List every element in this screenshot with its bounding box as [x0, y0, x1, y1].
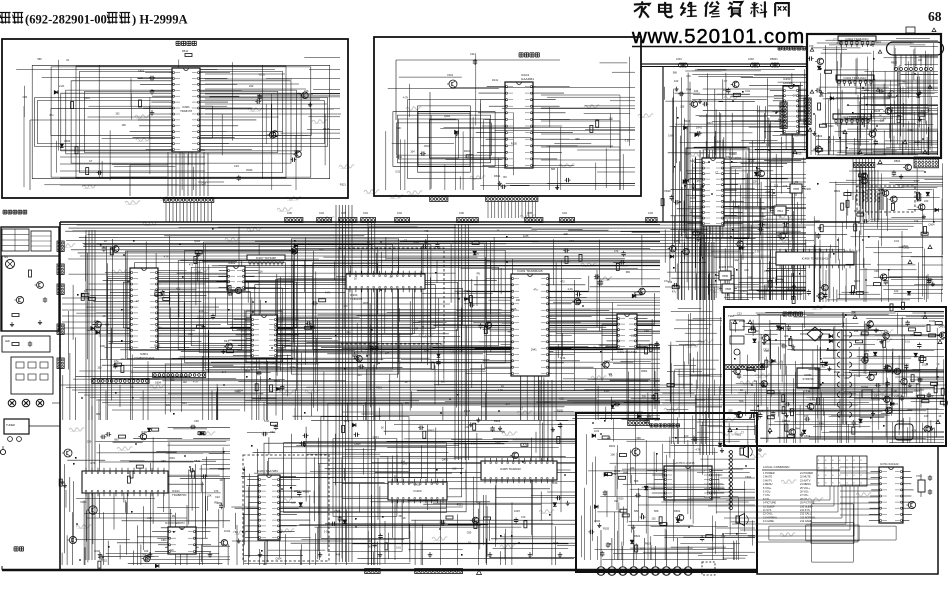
svg-text:C7: C7	[89, 159, 93, 163]
svg-text:C90: C90	[396, 127, 401, 130]
svg-text:473: 473	[176, 288, 181, 291]
svg-text:C30: C30	[194, 419, 199, 423]
svg-text:C7: C7	[874, 394, 878, 398]
svg-text:R321: R321	[457, 504, 464, 507]
section box: audio / AV output	[576, 413, 757, 572]
svg-text:R802: R802	[894, 159, 901, 163]
svg-text:IC103 NE567N: IC103 NE567N	[165, 521, 184, 525]
svg-text:680: 680	[170, 379, 175, 382]
svg-text:22K: 22K	[169, 549, 174, 552]
IC457 7812 regulator	[760, 206, 789, 218]
svg-text:47u: 47u	[884, 329, 889, 333]
IC903 7805 regulator	[716, 265, 734, 283]
svg-text:1K: 1K	[403, 517, 406, 520]
svg-text:R9: R9	[609, 372, 613, 376]
svg-text:47u: 47u	[672, 291, 677, 294]
svg-text:Q401: Q401	[594, 519, 601, 523]
svg-text:102: 102	[144, 549, 149, 553]
svg-text:C604: C604	[64, 139, 71, 143]
svg-text:C114: C114	[470, 52, 477, 56]
svg-text:LOCAL COMMAND: LOCAL COMMAND	[763, 465, 790, 469]
wire mesh: tuner / IF area	[62, 428, 230, 565]
svg-text:22 MUTE: 22 MUTE	[800, 476, 811, 479]
IC401 TDA9860 (audio processor)	[687, 152, 745, 226]
svg-text:2 MUTE: 2 MUTE	[763, 476, 773, 479]
svg-text:C23: C23	[569, 239, 574, 243]
svg-text:CN4: CN4	[397, 212, 402, 215]
svg-text:680: 680	[626, 271, 631, 274]
IC201 TDA8362A5 (one-chip process)	[455, 269, 594, 376]
svg-text:680: 680	[96, 413, 101, 416]
svg-text:1015: 1015	[523, 235, 529, 238]
svg-text:473: 473	[120, 358, 125, 361]
svg-text:IC201 TDA8362A5: IC201 TDA8362A5	[517, 269, 542, 273]
svg-text:100: 100	[842, 131, 847, 134]
svg-text:473: 473	[560, 281, 565, 284]
svg-text:473: 473	[809, 44, 814, 48]
optocoupler PC961	[861, 386, 872, 398]
svg-text:C811: C811	[864, 88, 870, 91]
svg-text:2.2K: 2.2K	[604, 389, 610, 393]
svg-text:L601: L601	[676, 57, 682, 61]
svg-text:100: 100	[291, 501, 296, 505]
svg-text:104: 104	[668, 280, 673, 284]
svg-text:CN4: CN4	[319, 212, 324, 215]
svg-text:473: 473	[189, 264, 194, 267]
wire bundle: vertical riser x=86-96	[86, 230, 95, 560]
svg-text:47u: 47u	[114, 359, 119, 363]
svg-text:10K: 10K	[686, 75, 691, 78]
svg-text:R321: R321	[854, 209, 861, 213]
svg-text:R105: R105	[303, 491, 310, 494]
discrete clusters deflection area	[661, 79, 938, 311]
function list text block	[762, 465, 840, 523]
svg-text:C30: C30	[466, 154, 471, 158]
svg-text:CN4: CN4	[363, 212, 368, 215]
svg-text:R321: R321	[828, 125, 835, 128]
svg-text:C90: C90	[754, 329, 759, 333]
svg-text:Q401: Q401	[141, 431, 148, 434]
svg-text:IC403: IC403	[413, 489, 421, 493]
svg-text:7808: 7808	[725, 287, 731, 291]
CRT board discrete clusters	[808, 44, 926, 152]
svg-text:C30: C30	[23, 96, 28, 99]
svg-text:2.2K: 2.2K	[674, 239, 680, 243]
svg-text:1K: 1K	[84, 289, 87, 293]
connector comb CN401 (to CRT board)	[780, 102, 787, 128]
svg-text:R321: R321	[376, 386, 383, 389]
svg-text:473: 473	[914, 179, 919, 183]
svg-text:330: 330	[398, 515, 403, 518]
speaker SP2	[736, 516, 740, 523]
svg-text:CN5: CN5	[527, 212, 532, 215]
IC207 TA7343P (APC)	[247, 255, 285, 266]
resistor R611 top	[182, 49, 192, 57]
svg-text:5.6K: 5.6K	[356, 443, 361, 446]
svg-text:R321: R321	[228, 344, 235, 347]
svg-text:R44: R44	[819, 422, 824, 425]
svg-text:102: 102	[452, 468, 457, 471]
svg-text:1015: 1015	[553, 542, 559, 545]
wire bundle: vertical riser x=700-714	[700, 150, 713, 455]
svg-text:R44: R44	[654, 379, 659, 383]
main-board mid connector comb CN103	[153, 373, 206, 378]
IR receiver module	[2, 256, 59, 331]
connector comb right edge row 1	[854, 163, 875, 168]
svg-text:211 SYS: 211 SYS	[800, 509, 810, 512]
svg-text:5.6K: 5.6K	[668, 135, 673, 138]
svg-text:212 CALL: 212 CALL	[800, 513, 812, 516]
svg-text:C30: C30	[474, 251, 479, 255]
svg-text:C30: C30	[559, 397, 564, 400]
svg-text:680: 680	[916, 383, 921, 386]
board-A bottom connector comb	[164, 198, 214, 203]
svg-text:0.01: 0.01	[594, 429, 600, 433]
svg-text:IR1: IR1	[4, 256, 9, 259]
wire: drops from connector to main board	[166, 203, 212, 222]
svg-text:473: 473	[424, 229, 429, 233]
svg-text:Q401: Q401	[939, 325, 946, 328]
svg-text:IC302 TDA4662: IC302 TDA4662	[617, 350, 637, 354]
svg-text:C811: C811	[903, 246, 910, 250]
svg-text:680: 680	[166, 404, 171, 407]
svg-text:C90: C90	[467, 532, 472, 535]
svg-text:C604: C604	[156, 326, 163, 329]
audio driver transistor	[630, 448, 640, 456]
svg-text:100: 100	[684, 434, 689, 438]
section box: picture enhancement board 图像增强	[2, 39, 348, 198]
tuner block 高频调谐器	[4, 419, 60, 441]
svg-text:1K: 1K	[936, 362, 939, 366]
svg-text:100: 100	[97, 367, 102, 370]
wire routing loops in picture-enhance board	[16, 57, 341, 190]
wire bus: mid horizontal bundle y=300-340 left half	[62, 298, 460, 334]
svg-text:C30: C30	[631, 335, 636, 338]
svg-text:4.7K: 4.7K	[193, 381, 198, 384]
IC454 LA4445 (audio power amp)	[647, 461, 724, 500]
main-board left edge connector strips	[57, 241, 64, 368]
svg-text:47u: 47u	[664, 279, 669, 283]
svg-text:Q401: Q401	[814, 219, 821, 223]
svg-text:C811: C811	[194, 459, 201, 463]
svg-text:R802: R802	[891, 62, 898, 65]
svg-text:C811: C811	[161, 539, 167, 542]
svg-text:Q401: Q401	[875, 41, 882, 44]
decorative grey watermark squiggles	[60, 95, 894, 549]
svg-text:C90: C90	[892, 389, 897, 393]
svg-text:C811: C811	[764, 269, 771, 273]
svg-text:7812: 7812	[777, 209, 783, 213]
svg-text:0.01: 0.01	[395, 170, 400, 173]
svg-text:1K: 1K	[235, 530, 238, 534]
svg-text:FB601: FB601	[770, 57, 778, 61]
svg-text:4.7K: 4.7K	[695, 448, 701, 452]
IC306 7805 regulator	[787, 184, 811, 196]
svg-text:102: 102	[894, 289, 899, 293]
main board outline 主板	[60, 221, 860, 223]
IC450 LA4465 (audio amp driver)	[768, 77, 810, 134]
svg-text:22K: 22K	[851, 312, 856, 315]
svg-text:C811: C811	[217, 501, 224, 505]
svg-text:22K: 22K	[642, 395, 647, 398]
svg-text:7805: 7805	[722, 274, 728, 278]
svg-text:1015: 1015	[511, 308, 517, 311]
svg-text:CN3: CN3	[648, 212, 653, 215]
svg-text:56K: 56K	[673, 72, 678, 75]
svg-text:0.01: 0.01	[324, 531, 329, 534]
svg-text:1K: 1K	[496, 230, 499, 233]
svg-text:C604: C604	[804, 435, 811, 438]
svg-text:R105: R105	[557, 410, 564, 413]
svg-text:C23: C23	[215, 496, 220, 499]
svg-text:IC306: IC306	[804, 187, 811, 191]
svg-text:1K: 1K	[381, 426, 384, 429]
svg-text:C811: C811	[763, 349, 769, 352]
svg-text:R105: R105	[323, 128, 330, 131]
svg-text:C7: C7	[154, 289, 158, 293]
svg-text:1015: 1015	[604, 359, 610, 363]
svg-text:2.2K: 2.2K	[772, 276, 778, 280]
label 图像增强	[176, 40, 180, 42]
svg-text:STR6708: STR6708	[803, 377, 815, 381]
svg-text:1015: 1015	[914, 389, 920, 393]
svg-text:1K: 1K	[879, 114, 882, 117]
svg-text:102: 102	[721, 535, 726, 538]
wire bus: lower horizontal bus y=385-405	[60, 385, 946, 405]
wire bundle from CRT board down	[853, 158, 875, 221]
svg-text:0.01: 0.01	[694, 229, 700, 233]
svg-text:102: 102	[367, 540, 372, 543]
svg-text:8 CH-: 8 CH-	[763, 498, 770, 501]
power output connector comb	[724, 365, 765, 370]
svg-text:GAA4961: GAA4961	[521, 77, 534, 81]
svg-text:47u: 47u	[130, 386, 135, 389]
svg-text:102: 102	[115, 112, 120, 115]
svg-text:TC8415N: TC8415N	[350, 297, 362, 301]
svg-text:R44: R44	[224, 339, 229, 343]
svg-text:1015: 1015	[514, 509, 520, 513]
svg-text:56K: 56K	[37, 58, 42, 61]
svg-text:1K: 1K	[718, 445, 721, 448]
IC101 TDA8870 (IF amp)	[82, 468, 186, 497]
svg-text:1K: 1K	[938, 415, 941, 418]
svg-text:C23: C23	[811, 329, 816, 332]
svg-text:TDA9860: TDA9860	[729, 156, 742, 160]
small box top-right corner	[906, 27, 936, 33]
svg-text:56K: 56K	[739, 399, 744, 403]
svg-text:4.7K: 4.7K	[154, 295, 159, 298]
IC701 BA5204 (remote decoder)	[869, 462, 914, 523]
svg-text:R44: R44	[682, 182, 687, 185]
svg-text:11 SYS: 11 SYS	[763, 509, 772, 512]
svg-text:1015: 1015	[754, 219, 760, 223]
svg-text:4.7K: 4.7K	[654, 419, 659, 422]
board-B bottom connector combs	[430, 197, 448, 202]
svg-text:2.2K: 2.2K	[765, 191, 770, 194]
svg-text:25 VOL+: 25 VOL+	[800, 487, 810, 490]
mains input filter	[728, 314, 744, 355]
wire bundle: risers to CRT board	[700, 170, 878, 300]
svg-text:4.7K: 4.7K	[471, 442, 476, 445]
svg-text:10K: 10K	[782, 420, 787, 423]
svg-text:VD20: VD20	[80, 501, 87, 504]
svg-text:R802: R802	[235, 390, 242, 393]
switching transformer T961	[837, 330, 851, 424]
svg-text:4.7K: 4.7K	[854, 169, 860, 173]
svg-text:C30: C30	[690, 160, 695, 163]
svg-text:680: 680	[634, 509, 639, 513]
svg-text:C604: C604	[745, 476, 752, 479]
connector comb right edge grid	[914, 157, 938, 168]
svg-text:C23: C23	[737, 313, 742, 316]
IC403 chroma delay	[388, 479, 447, 503]
label 视频源选	[519, 52, 523, 54]
svg-text:IC207 TA7343P: IC207 TA7343P	[256, 256, 276, 260]
svg-text:Q401: Q401	[373, 436, 380, 439]
svg-text:R802: R802	[641, 370, 648, 373]
svg-text:C604: C604	[424, 144, 431, 148]
svg-text:223: 223	[94, 319, 99, 323]
svg-text:L602: L602	[748, 57, 754, 61]
svg-text:4.7K: 4.7K	[403, 96, 408, 99]
svg-text:C23: C23	[138, 77, 143, 80]
svg-text:C604: C604	[275, 558, 282, 561]
svg-text:4.7K: 4.7K	[640, 548, 645, 551]
svg-text:330: 330	[630, 467, 635, 470]
title: watermark site name 家电维修资料网 (brush style)	[634, 1, 789, 17]
connector comb CN402	[804, 98, 811, 124]
svg-text:102: 102	[821, 366, 826, 369]
svg-text:10K: 10K	[122, 124, 127, 127]
wire mesh CRT board	[811, 39, 938, 156]
wire bundle: vertical riser x=368-376	[368, 222, 375, 565]
svg-text:22K: 22K	[304, 89, 309, 93]
components video board	[420, 114, 599, 190]
IC104 GAA4961 (video select IC)	[472, 73, 577, 168]
svg-text:223: 223	[784, 334, 789, 338]
svg-text:TUNER: TUNER	[6, 423, 15, 427]
svg-text:CN6: CN6	[459, 212, 464, 215]
test point triangles deflection	[793, 130, 932, 264]
svg-text:1K: 1K	[66, 59, 69, 62]
svg-text:R44: R44	[182, 402, 187, 405]
svg-text:C23: C23	[234, 164, 239, 168]
svg-text:10K: 10K	[748, 276, 753, 279]
headphone connector column	[728, 451, 733, 510]
section box: remote receiver board 遥控接收板	[3, 209, 7, 211]
wire mesh right column below CRT board	[814, 163, 943, 302]
IC860 PCF84C841P	[229, 311, 299, 365]
svg-text:IC203 SAA7283: IC203 SAA7283	[257, 469, 278, 473]
svg-text:1N41: 1N41	[907, 129, 914, 132]
svg-text:C604: C604	[413, 241, 420, 244]
svg-text:R44: R44	[795, 428, 800, 431]
svg-text:R802: R802	[428, 429, 435, 433]
svg-text:1N41: 1N41	[622, 472, 629, 475]
svg-text:330: 330	[680, 106, 685, 109]
svg-text:1N41: 1N41	[492, 79, 499, 82]
svg-text:0.01: 0.01	[894, 239, 900, 243]
svg-text:473: 473	[222, 371, 227, 374]
svg-text:100: 100	[609, 118, 614, 121]
svg-text:Q401: Q401	[84, 97, 91, 100]
svg-text:223: 223	[188, 333, 193, 336]
svg-text:R105: R105	[837, 42, 844, 45]
power test triangles	[728, 315, 942, 432]
svg-text:680: 680	[319, 248, 324, 251]
svg-text:1015: 1015	[854, 279, 860, 283]
svg-text:R802: R802	[815, 369, 822, 372]
svg-text:6 VOL-: 6 VOL-	[763, 491, 771, 494]
label audio section	[650, 423, 653, 425]
svg-text:T960: T960	[728, 314, 734, 318]
svg-text:C23: C23	[474, 239, 479, 243]
svg-text:C604: C604	[224, 279, 231, 283]
svg-text:R802: R802	[816, 134, 823, 138]
receiver board pin table	[2, 229, 51, 251]
svg-text:V101: V101	[447, 73, 454, 77]
svg-text:1K: 1K	[354, 278, 357, 281]
svg-text:680: 680	[105, 323, 110, 326]
svg-text:R105: R105	[464, 409, 471, 413]
svg-text:3 AV/TV: 3 AV/TV	[763, 479, 772, 482]
svg-text:R105: R105	[511, 142, 518, 145]
svg-text:C604: C604	[169, 457, 176, 460]
svg-text:1 POWER: 1 POWER	[763, 472, 775, 475]
section box: CRT board 图像管电路板	[807, 34, 941, 158]
svg-text:IC454 LA4445: IC454 LA4445	[676, 461, 695, 465]
svg-text:680: 680	[607, 437, 612, 440]
IC802 PCF8583 (EEPROM)	[216, 261, 259, 290]
svg-text:C90: C90	[87, 441, 92, 444]
svg-text:IC903 7805: IC903 7805	[719, 265, 733, 269]
svg-text:C604: C604	[884, 368, 891, 371]
svg-text:R321: R321	[274, 379, 281, 383]
svg-text:LA4465: LA4465	[783, 81, 793, 85]
IC801 CTV8915/GAV4 (microcontroller)	[85, 268, 220, 360]
front AV jacks	[8, 399, 44, 407]
svg-text:56K: 56K	[654, 509, 659, 513]
svg-text:Q401: Q401	[414, 483, 421, 486]
wire mesh left of power supply box	[662, 309, 722, 444]
svg-text:C90: C90	[845, 377, 850, 380]
wire bundle: vertical riser x=540-556	[540, 380, 552, 470]
svg-text:X701: X701	[916, 475, 922, 478]
svg-text:47u: 47u	[506, 403, 511, 406]
AV jack row (bottom RCA terminals)	[597, 530, 693, 575]
svg-text:104: 104	[410, 151, 415, 154]
svg-text:R105: R105	[603, 527, 610, 530]
svg-text:4.7K: 4.7K	[703, 286, 708, 289]
svg-text:102: 102	[432, 481, 437, 484]
svg-text:C604: C604	[334, 509, 341, 513]
posistor PT901	[895, 420, 913, 440]
svg-text:Q401: Q401	[442, 458, 449, 461]
wire bus: upper horizontal bus y=225-258	[65, 225, 847, 256]
svg-text:10K: 10K	[199, 309, 204, 313]
svg-text:IC457: IC457	[760, 207, 767, 211]
capacitor C114	[470, 52, 477, 65]
IC903C TDA6101Q (B cathode amp)	[833, 114, 871, 119]
svg-text:4.7K: 4.7K	[164, 256, 169, 259]
svg-text:R321: R321	[609, 444, 616, 448]
svg-text:1015: 1015	[363, 302, 369, 305]
svg-text:10K: 10K	[918, 59, 923, 62]
svg-text:Q401: Q401	[464, 289, 471, 293]
IC406 TDA8361 horizontal IC	[776, 249, 854, 268]
svg-text:10K: 10K	[516, 299, 521, 302]
svg-text:C90: C90	[644, 329, 649, 333]
